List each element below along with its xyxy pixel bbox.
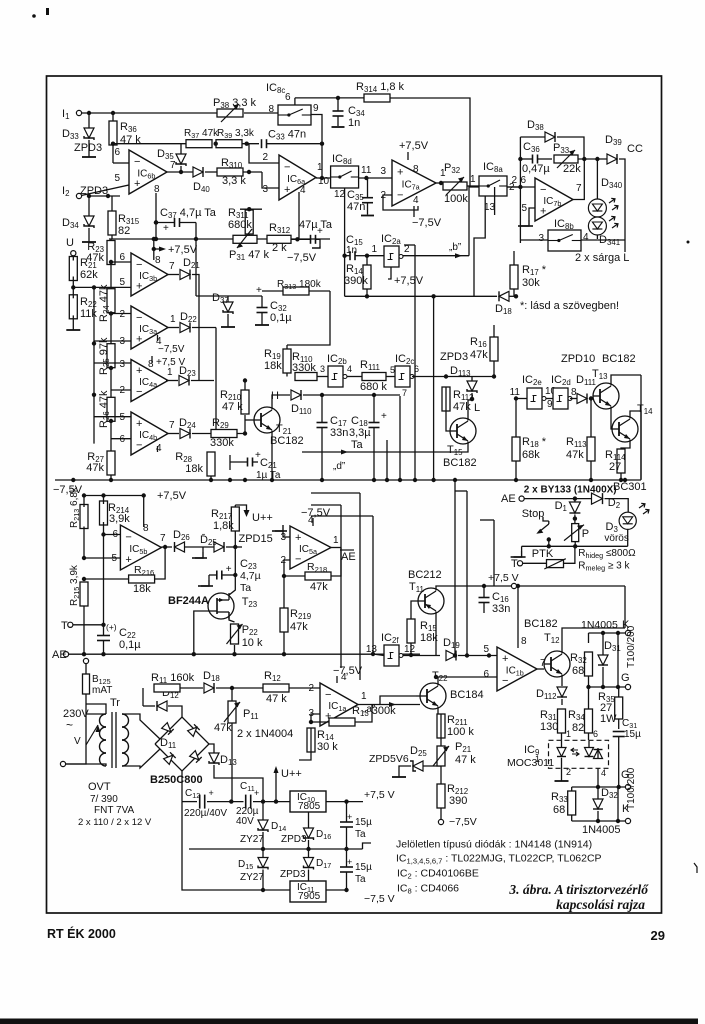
svg-text:+: + <box>347 857 352 867</box>
svg-text:−: − <box>540 184 546 196</box>
page frame <box>47 76 662 913</box>
svg-text:18k: 18k <box>185 463 203 475</box>
diode D2 <box>592 493 603 504</box>
ground hook D25 <box>202 547 204 552</box>
svg-text:T: T <box>511 558 518 570</box>
svg-text:68k: 68k <box>522 449 540 461</box>
diode D38 <box>545 132 555 142</box>
svg-text:12: 12 <box>404 644 416 655</box>
wire IC5b out <box>161 546 172 548</box>
capacitor C31 <box>613 731 625 733</box>
wire R215 bus down <box>83 606 85 654</box>
wire D2 corner to LED <box>605 499 629 513</box>
potentiometer P21 <box>437 746 445 766</box>
wire IC3b power pin8 <box>153 239 155 260</box>
svg-text:+: + <box>136 418 142 430</box>
wire IC5b pin6 from R214 <box>101 532 105 536</box>
capacitor C38 47u Ta <box>310 235 312 244</box>
svg-text:100 k: 100 k <box>447 726 474 738</box>
node G terminal <box>625 684 630 689</box>
wire IC5b feedback <box>82 577 86 581</box>
wire IC2e out to IC2d <box>546 398 553 400</box>
resistor R215 <box>80 582 88 606</box>
resistor R32 <box>585 652 593 676</box>
svg-text:680 k: 680 k <box>360 381 387 393</box>
svg-text:−: − <box>295 553 301 565</box>
svg-text:5: 5 <box>114 173 120 184</box>
svg-text:47 k: 47 k <box>455 754 476 766</box>
svg-text:+: + <box>256 285 262 296</box>
op-amp IC3a <box>131 306 168 349</box>
svg-text:AE: AE <box>501 493 516 505</box>
wire IC3a out diode D22 <box>167 327 179 329</box>
resistor R214 <box>100 501 108 525</box>
resistor R19 <box>283 349 291 373</box>
svg-text:47k: 47k <box>310 581 328 593</box>
resistor R312 <box>267 235 291 243</box>
node U terminal <box>71 251 76 256</box>
diode D26 <box>175 542 185 552</box>
svg-text:2: 2 <box>308 683 314 694</box>
svg-text:3,9k: 3,9k <box>109 513 130 525</box>
ground under R22 <box>72 325 74 330</box>
transistor T21 <box>254 407 280 433</box>
svg-text:1n: 1n <box>346 245 357 256</box>
svg-text:3: 3 <box>320 364 325 374</box>
resistor R17 <box>510 265 518 289</box>
wire D40 R310 <box>205 171 217 173</box>
svg-text:1: 1 <box>470 174 476 185</box>
svg-text:„a”: „a” <box>363 704 375 715</box>
svg-text:8: 8 <box>154 184 160 195</box>
svg-text:82: 82 <box>118 225 130 237</box>
wire T12 emitter <box>561 675 563 687</box>
svg-text:3: 3 <box>380 166 386 177</box>
wire IC5a out AE-bar <box>331 547 341 549</box>
svg-text:11k: 11k <box>80 308 97 320</box>
wire IC1a out a <box>358 704 380 706</box>
wire R26 node to IC4b <box>109 419 113 423</box>
op-amp IC4b <box>131 412 168 455</box>
svg-text:AE: AE <box>341 551 356 563</box>
resistor R27 <box>107 451 115 475</box>
svg-text:1W: 1W <box>600 713 617 725</box>
speck outside frame right <box>687 241 690 244</box>
svg-text:7: 7 <box>402 388 407 398</box>
node G2 terminal <box>625 784 630 789</box>
svg-text:1: 1 <box>566 729 571 739</box>
resistor R313 <box>283 287 309 295</box>
+7,5V terminal right <box>511 583 516 588</box>
wire IC2e in from R18 node <box>514 398 516 400</box>
wire P32 to IC8a <box>467 185 479 187</box>
svg-text:47k: 47k <box>86 252 104 264</box>
svg-text:−: − <box>502 675 508 687</box>
svg-text:6: 6 <box>114 147 120 158</box>
svg-text:47µ Ta: 47µ Ta <box>299 219 333 231</box>
node I2 terminal <box>76 193 81 198</box>
svg-text:R215 3,9k: R215 3,9k <box>69 564 81 606</box>
svg-text:ZPD3: ZPD3 <box>280 869 306 880</box>
svg-text:1: 1 <box>361 691 367 702</box>
speck outside frame right low <box>694 863 697 873</box>
wire T14 collector <box>630 411 641 479</box>
resistor R36 <box>109 121 117 145</box>
svg-text:2 x sárga L: 2 x sárga L <box>575 252 629 264</box>
resistor R14b 30k <box>307 728 315 752</box>
schmitt inverter IC2f <box>384 645 399 666</box>
wire PTK up to rail <box>564 546 575 563</box>
node K2 terminal <box>625 818 630 823</box>
svg-text:−7,5 V: −7,5 V <box>364 893 395 905</box>
transistor T14 <box>612 416 638 442</box>
potentiometer P11 <box>228 701 236 723</box>
wire IC6a output to IC8d <box>316 177 331 179</box>
wire IC8c pin6 up to R314 rail <box>294 98 296 105</box>
diode D23 <box>179 376 189 386</box>
wire D25 to node <box>226 546 242 548</box>
svg-text:390k: 390k <box>344 275 368 287</box>
svg-text:6: 6 <box>414 364 419 374</box>
svg-text:4: 4 <box>347 364 352 374</box>
wire row1 main <box>182 801 197 803</box>
zener D17 ZPD3 <box>304 858 314 868</box>
wire IC2e input <box>514 398 527 400</box>
svg-text:ZPD3: ZPD3 <box>80 185 108 197</box>
potentiometer P38 <box>217 109 243 117</box>
capacitor C18 electrolytic <box>369 422 380 424</box>
wire T22 emitter <box>437 707 439 715</box>
svg-text:390: 390 <box>449 795 467 807</box>
svg-text:5: 5 <box>521 203 527 214</box>
wire T to PTK <box>523 562 547 564</box>
ground at IC7b pin5 <box>529 208 535 220</box>
svg-text:~: ~ <box>66 718 73 732</box>
svg-text:CC: CC <box>627 143 643 155</box>
wire long vertical x455 <box>454 480 456 656</box>
wire I2 bus down <box>89 195 120 197</box>
svg-text:5: 5 <box>119 277 125 288</box>
wire row3 -7,5V <box>182 802 290 890</box>
svg-text:R11 160k: R11 160k <box>151 672 195 685</box>
svg-text:ZY27: ZY27 <box>240 872 264 883</box>
wire T14 emitter to R114 <box>621 440 630 451</box>
svg-text:11: 11 <box>361 165 372 176</box>
led D340 <box>588 199 606 217</box>
wire T23 gate <box>194 611 208 654</box>
wire T100 top vertical <box>617 633 619 687</box>
svg-text:BC184: BC184 <box>450 689 484 701</box>
wire IC4a out diode D23 <box>166 380 178 382</box>
svg-text:130: 130 <box>540 721 558 733</box>
svg-text:„d”: „d” <box>333 461 345 472</box>
svg-text:+: + <box>134 178 140 190</box>
svg-text:33n: 33n <box>492 603 510 615</box>
svg-text:4: 4 <box>601 768 606 778</box>
wire b vertical to P32 node <box>468 186 470 256</box>
wire IC2b to R111 <box>347 376 362 378</box>
node AE terminal left <box>63 652 68 657</box>
svg-text:3: 3 <box>262 184 268 195</box>
svg-text:6: 6 <box>119 434 125 445</box>
wire P33 to D39 <box>578 158 607 160</box>
resistor R219 <box>280 608 288 632</box>
svg-text:BF244A: BF244A <box>168 595 209 607</box>
wire primary connections <box>86 713 106 715</box>
svg-text:+: + <box>502 653 508 665</box>
wire rail y296 long <box>345 295 497 297</box>
wire T11 collector down <box>435 612 437 656</box>
transistor T13 <box>593 383 619 409</box>
capacitor C32 <box>257 307 268 309</box>
resistor R213 <box>80 505 88 529</box>
diode D37 <box>223 302 233 312</box>
bridge rectifier D11 <box>155 717 209 771</box>
wire LED bottom to IC8b <box>596 235 598 239</box>
op-amp IC3b <box>131 253 168 296</box>
capacitor C35 <box>362 197 373 199</box>
op-amp IC7a <box>392 160 436 206</box>
node T right <box>517 561 522 566</box>
svg-text:7: 7 <box>169 420 175 431</box>
wire mains left <box>66 704 86 764</box>
svg-text:FNT 7VA: FNT 7VA <box>94 805 135 816</box>
svg-text:P38 3,3 k: P38 3,3 k <box>213 97 257 110</box>
svg-text:27: 27 <box>609 461 621 473</box>
svg-text:−7,5V: −7,5V <box>158 344 185 355</box>
wire IC5b pin5 <box>82 556 86 560</box>
svg-text:−7,5V: −7,5V <box>301 507 331 519</box>
op-amp IC7b <box>535 178 573 221</box>
analog switch IC8b <box>548 230 581 251</box>
svg-text:1: 1 <box>170 314 176 325</box>
svg-text:7: 7 <box>160 533 166 544</box>
svg-text:40V: 40V <box>236 816 254 827</box>
svg-text:+: + <box>136 280 142 292</box>
zener D113 <box>467 381 477 391</box>
diode D39 <box>607 154 617 164</box>
capacitor C16 <box>479 597 490 599</box>
svg-text:7805: 7805 <box>298 801 321 812</box>
wire IC2f out row to D19 and IC1b <box>403 655 440 657</box>
svg-text:2 x 1N4004: 2 x 1N4004 <box>237 728 293 740</box>
resistor R31 <box>558 709 566 733</box>
wire corner joins <box>311 504 341 506</box>
svg-text:L: L <box>474 402 480 414</box>
capacitor C37 electrolytic <box>174 218 176 227</box>
opto arrows <box>572 750 578 754</box>
svg-text:29: 29 <box>651 928 665 943</box>
schmitt inverter IC2b <box>328 366 343 387</box>
wire IC2c out to T15 base region <box>412 376 446 378</box>
svg-text:P31 47 k: P31 47 k <box>229 249 269 262</box>
svg-text:Ta: Ta <box>355 829 366 840</box>
svg-text:3: 3 <box>538 233 544 244</box>
wire feedback box left <box>519 137 521 243</box>
resistor R113 <box>587 437 595 461</box>
potentiometer P22 <box>231 624 239 644</box>
wire T100 bottom vertical <box>617 787 619 821</box>
svg-text:R26 47k: R26 47k <box>98 390 111 428</box>
analog switch IC8a <box>479 176 507 196</box>
wire bundle corners mid <box>340 505 342 668</box>
svg-text:ZPD5V6: ZPD5V6 <box>369 753 409 765</box>
svg-text:0,1µ: 0,1µ <box>270 312 292 324</box>
svg-text:12: 12 <box>334 189 346 200</box>
svg-text:330k: 330k <box>292 362 316 374</box>
diode D111 <box>577 394 587 404</box>
svg-text:47n: 47n <box>347 201 365 213</box>
wire secondary to bridge <box>122 714 160 739</box>
transistor T15 <box>450 418 476 444</box>
svg-text:BC182: BC182 <box>443 457 477 469</box>
rail y480 long <box>55 479 641 481</box>
op-amp IC5a <box>290 526 331 569</box>
zener D25c <box>413 761 423 771</box>
resistor R12 <box>263 684 289 692</box>
capacitor C17 <box>317 422 328 424</box>
wire bridge bottom down <box>181 771 183 802</box>
capacitor C14 electrolytic 15u <box>340 866 353 868</box>
svg-text:R24 47k: R24 47k <box>98 284 111 322</box>
svg-text:BC182: BC182 <box>270 435 304 447</box>
capacitor C13 electrolytic 15u <box>340 821 353 823</box>
wire R314 rail left part <box>295 97 364 99</box>
svg-text:+: + <box>136 365 142 377</box>
wire x196 down to D37 row <box>195 239 197 296</box>
capacitor C15 <box>349 251 351 260</box>
ground IC5a plus in <box>283 531 290 537</box>
svg-text:B250C800: B250C800 <box>150 774 203 786</box>
wire IC6b plus input <box>79 185 129 196</box>
svg-text:9: 9 <box>313 103 319 114</box>
schmitt inverter IC2a <box>384 246 399 267</box>
wire b2 vertical bundle down <box>414 245 416 480</box>
wire T21 collector <box>272 395 290 410</box>
svg-text:0,47µ: 0,47µ <box>522 163 550 175</box>
wire G node row <box>589 686 626 688</box>
resistor R212 <box>437 784 445 808</box>
svg-text:kapcsolási rajza: kapcsolási rajza <box>556 897 645 912</box>
transistor T11 pnp <box>418 588 444 614</box>
op-amp IC6a <box>279 155 316 200</box>
zener D33 <box>84 128 94 138</box>
wire node down to C23 T23 <box>229 547 235 595</box>
wire T21 emitter down <box>271 431 273 481</box>
transistor T22 <box>420 683 446 709</box>
svg-text:0,1µ: 0,1µ <box>119 639 141 651</box>
svg-text:U++: U++ <box>281 768 302 780</box>
wire R23 bottom to IC3b pin6 <box>109 260 113 264</box>
bottom black bar <box>0 1019 698 1024</box>
wire IC6a pin4 down <box>298 192 300 239</box>
svg-text:Jelöletlen típusú diódák : 1N4: Jelöletlen típusú diódák : 1N4148 (1N914… <box>396 839 592 851</box>
svg-text:Ta: Ta <box>351 439 364 451</box>
svg-text:2: 2 <box>119 309 125 320</box>
svg-text:−: − <box>125 531 131 543</box>
diode D24 <box>180 429 190 439</box>
svg-text:+: + <box>295 532 301 544</box>
wire D22 right <box>192 327 216 329</box>
svg-text:AE: AE <box>52 649 67 661</box>
wire IC1b out to T12 base <box>537 668 544 670</box>
svg-text:2: 2 <box>511 175 517 186</box>
svg-text:1: 1 <box>333 535 339 546</box>
svg-text:8: 8 <box>155 255 161 266</box>
svg-text:U++: U++ <box>252 512 273 524</box>
wire K2 row <box>572 820 625 822</box>
svg-text:−: − <box>136 259 142 271</box>
svg-text:−7,5V: −7,5V <box>287 252 317 264</box>
diode D110 <box>291 390 301 400</box>
svg-text:+: + <box>125 554 131 566</box>
wire C15 to IC2a <box>367 255 384 257</box>
ground hook C23 <box>209 574 217 576</box>
svg-text:−: − <box>136 312 142 324</box>
resistor R111 <box>362 373 386 381</box>
svg-text:PTK: PTK <box>532 548 554 560</box>
svg-text:MOC3011: MOC3011 <box>507 757 554 769</box>
wire IC8c pin9 down to output node <box>311 115 322 179</box>
svg-text:Ta: Ta <box>240 582 251 594</box>
resistor R110 <box>295 373 317 381</box>
svg-text:+: + <box>381 411 387 422</box>
wire IC7a feedback <box>383 195 418 210</box>
svg-text:−: − <box>136 439 142 451</box>
resistor R24 <box>107 289 115 313</box>
svg-text:BC301: BC301 <box>613 481 647 493</box>
wire T13 collector <box>611 375 641 386</box>
svg-text:vörös: vörös <box>604 533 628 544</box>
wire IC1b pin6 <box>436 676 497 678</box>
wire T11 base <box>411 601 418 622</box>
capacitor C12 electrolytic <box>199 795 201 809</box>
svg-text:6: 6 <box>119 252 125 263</box>
wire IC8d pin12 down to C15 row <box>344 188 346 296</box>
resistor R33 <box>568 791 576 815</box>
potentiometer P31 <box>233 235 257 243</box>
svg-text:47 k: 47 k <box>222 401 243 413</box>
svg-text:T: T <box>61 620 68 632</box>
wire feedback box top <box>520 136 545 138</box>
svg-text:7: 7 <box>169 261 175 272</box>
svg-text:R39 3,3k: R39 3,3k <box>217 128 255 140</box>
svg-text:„b”: „b” <box>449 242 461 253</box>
svg-text:+7,5V: +7,5V <box>157 490 187 502</box>
wire -7,5V end <box>438 819 443 824</box>
resistor R35 <box>615 697 623 719</box>
wire IC6b output <box>167 171 194 173</box>
wire R31 to opto pin1 <box>561 739 563 741</box>
svg-text:1N4005: 1N4005 <box>582 824 621 836</box>
transistor T12 <box>544 651 570 677</box>
svg-text:4: 4 <box>413 195 419 206</box>
wire verticals bundle mid <box>386 440 388 480</box>
svg-text:47 k: 47 k <box>266 693 287 705</box>
potentiometer P vertical <box>572 524 579 542</box>
diode D19 <box>446 651 456 661</box>
wire IC2f in <box>373 654 384 656</box>
svg-text:2: 2 <box>262 152 268 163</box>
thermistor PTK <box>547 560 564 568</box>
svg-text:−: − <box>397 190 403 202</box>
diode D32 <box>593 799 603 809</box>
svg-text:ZY27: ZY27 <box>240 834 264 845</box>
svg-text:5: 5 <box>390 365 395 375</box>
resistor R39 <box>216 140 242 148</box>
svg-text:7/ 390: 7/ 390 <box>90 794 118 805</box>
wire R14b bottom <box>299 752 311 760</box>
